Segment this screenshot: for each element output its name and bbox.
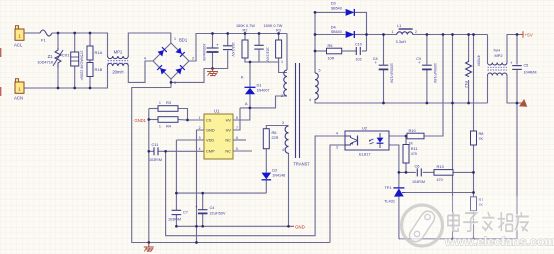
wire C7 bottom lead [175,215,177,226]
wire VDD horizontal line [176,192,266,194]
wire bridge bottom vertex down [170,79,172,88]
wire R3 left lead [149,108,158,110]
svg-text:2: 2 [192,57,194,61]
svg-text:CS: CS [206,118,212,123]
resistor R3 (snubber) 150K 0.7W [264,24,283,58]
wire Z1 bottom lead [57,68,59,88]
svg-text:20mH: 20mH [112,70,123,75]
svg-text:GND1: GND1 [134,118,146,123]
wire R6 to D2 [265,149,267,173]
TL431 shunt regulator TP1 [384,185,405,204]
wire R11 top lead [405,136,407,145]
svg-text:BD1: BD1 [179,38,188,43]
wire opto LED anode node [389,135,407,137]
wire C9 bottom lead [426,70,428,103]
wire output rail [367,34,397,36]
capacitor C3 103/1KV [254,45,269,62]
optocoupler U2 EL817 [336,126,389,157]
svg-text:4: 4 [309,98,311,102]
wire opto emitter drop [330,145,345,243]
svg-text:R2: R2 [243,28,248,33]
connector ACL [14,26,27,48]
svg-text:TL431: TL431 [384,199,395,204]
svg-text:CMP: CMP [206,149,215,154]
svg-text:275VAC/M 220nF: 275VAC/M 220nF [80,51,84,82]
svg-text:MP2: MP2 [495,53,503,58]
wire C5 top lead [516,35,518,65]
wire R3 snubber top lead [278,34,280,41]
svg-text:C4: C4 [210,206,215,210]
svg-text:F1: F1 [41,38,46,43]
resistor R3 (sense) [158,100,178,111]
wire D4 cathode side [355,34,367,36]
wire TL431 cathode node line [399,171,416,173]
resistor R5 10R [327,43,342,60]
svg-text:C11: C11 [152,142,159,147]
wire R1A top lead [89,33,91,46]
svg-text:HV: HV [226,118,232,123]
svg-text:1: 1 [174,37,176,41]
wire MP1 bottom right leg to bridge left vertex [128,61,153,82]
wire U1 pin7 to drain [233,108,240,130]
svg-text:4: 4 [199,147,201,151]
capacitor CX1 275VAC/M 220nF [62,51,84,82]
svg-text:103/1KV: 103/1KV [231,42,235,57]
wire C2 top lead [212,34,214,48]
capacitor C11 103R/M [149,142,162,162]
ground (earth symbol, primary rail) [144,243,154,252]
wire divider feed R8 [473,35,475,132]
wire VDD pin wire [176,139,204,141]
svg-text:C7: C7 [183,211,188,215]
svg-text:TRANS7: TRANS7 [293,162,310,167]
wire secondary ground drop to feedback rail [516,103,518,239]
svg-text:D4: D4 [331,25,337,30]
svg-text:D1: D1 [257,83,262,88]
wire D2 cathode to VDD line [265,180,267,193]
svg-text:22uF/50V: 22uF/50V [210,212,227,216]
diode D2 1N4148 [262,168,286,180]
wire C8 bottom lead [383,70,385,103]
capacitor C7 103R/M [168,210,188,221]
wire DC- to bulk cap bottom bus [171,51,228,83]
svg-text:C9: C9 [416,57,421,61]
svg-text:5: 5 [236,147,238,151]
svg-text:7: 7 [236,126,238,130]
svg-text:2: 2 [199,126,201,130]
svg-text:102: 102 [356,58,362,62]
wire D3 cathode to right bus [355,12,367,51]
svg-text:1: 1 [281,60,283,64]
svg-text:+: + [216,43,219,48]
wire feedback ground rail [399,238,517,240]
svg-text:103/1KV: 103/1KV [266,47,270,62]
wire R10 feed from +5V rail [424,35,443,137]
svg-text:NC: NC [225,149,231,154]
wire MP2 left bottom leg [487,76,489,104]
wire D1 anode to drain line [249,94,251,108]
svg-text:3: 3 [174,81,176,85]
svg-text:R3: R3 [276,28,281,33]
svg-text:R1B: R1B [95,67,103,72]
wire R13 to divider [453,171,474,173]
wire C6 to R13 [423,171,434,173]
svg-text:C8: C8 [373,57,378,61]
capacitor C5 104R/M [510,61,536,75]
svg-text:4: 4 [282,148,284,152]
wire MP2 right top leg to +5V [507,35,520,63]
wire C9 top lead [426,35,428,65]
wire TL431 cathode lead [398,172,400,188]
svg-text:10R: 10R [328,56,335,60]
svg-text:Z1: Z1 [48,54,54,59]
svg-text:R3: R3 [166,100,171,105]
wire MP1 top winding right leg to bridge top [128,33,171,56]
wire secondary bottom to ground bus [315,99,488,103]
wire drain node line [240,96,287,108]
wire CMP pin wire [166,150,204,152]
resistor R8 7K [471,131,484,145]
svg-text:1000uF/16V: 1000uF/16V [390,63,394,84]
svg-text:GND: GND [295,224,305,229]
svg-text:1: 1 [159,125,161,129]
svg-text:+5V: +5V [525,33,534,38]
svg-text:3: 3 [199,136,201,140]
svg-text:4: 4 [336,132,338,136]
inductor L1 3.3uH [392,23,418,44]
wire ACL to fuse [27,32,40,34]
fuse F1 [40,30,52,43]
wire primary GND line [176,225,291,227]
resistor R1B [87,63,103,77]
svg-text:R11: R11 [411,146,418,151]
resistor R7 7K [471,197,484,211]
wire secondary top lead to diode bus [314,12,316,73]
svg-text:R10: R10 [409,128,417,133]
svg-text:C5: C5 [524,64,529,68]
power port +5V [520,31,534,37]
svg-text:R13: R13 [437,164,444,169]
svg-text:103R/M: 103R/M [168,218,181,222]
svg-text:K: K [241,75,244,80]
svg-text:D3: D3 [331,1,336,6]
wire bridge right vertex to DC+ rail [189,34,287,62]
common-mode choke MP1 20mH [108,50,129,75]
svg-text:1: 1 [392,30,394,34]
svg-text:3: 3 [282,121,284,125]
svg-text:103R/M: 103R/M [149,158,162,162]
connector ACN [14,79,27,101]
wire MP2 left top leg [487,35,489,63]
resistor R1A [87,46,103,60]
diode D1 1N4007 [241,75,270,106]
power port 0V (output ground arrow) [519,99,530,110]
svg-text:400Vdc/M: 400Vdc/M [202,44,206,61]
resistor R12 4700R [464,55,481,88]
wire R1B bottom lead [89,77,91,89]
svg-text:1N4007: 1N4007 [257,89,270,93]
wire MP2 right bottom leg [507,76,520,104]
capacitor C9 1000uF/16V [416,57,437,84]
wire snubber join to primary pin [279,62,287,73]
wire C12 top lead [227,34,229,46]
transformer secondary winding [309,69,321,103]
capacitor C10 102 [355,43,362,62]
wire RC snubber line [315,50,327,52]
svg-text:4700R: 4700R [477,55,481,66]
wire D4 line left [315,34,345,36]
svg-text:470: 470 [411,152,417,156]
wire ACN to MP1 bottom rail [27,66,108,88]
svg-text:CX1: CX1 [62,53,71,58]
svg-text:8: 8 [236,116,238,120]
wire GND1 vertical to ground rail [148,109,150,243]
svg-text:C6: C6 [415,163,420,168]
wire U1 pin5 NC stub [233,150,252,152]
svg-text:10D471K: 10D471K [37,60,54,65]
wire aux top to R6 [266,126,288,129]
diode D3 SB540 [331,1,355,16]
svg-text:1000uF/16V: 1000uF/16V [433,63,437,84]
watermark: elecfans logo and text (decorative) [400,196,554,248]
wire vertical link wire [452,35,454,239]
wire DC- left return loop to primary ground rail [132,88,171,243]
wire output rail after L1 [413,34,488,36]
svg-text:C10: C10 [355,43,362,47]
wire R2 top lead [244,34,246,41]
capacitor C8 1000uF/16V [373,57,394,84]
wire C4 top lead [202,193,204,209]
svg-text:EL817: EL817 [359,152,371,157]
wire CMP to opto collector line [166,136,345,236]
wire U1 GND pin to ground rails [197,130,205,243]
wire R4 left lead [149,119,158,121]
wire U1 pin6 NC stub [233,139,246,141]
svg-text:U1: U1 [214,109,220,114]
svg-text:22R: 22R [272,136,279,140]
transformer core [295,63,297,158]
svg-text:7K: 7K [479,137,484,141]
wire snubber bottom join [245,58,279,62]
svg-text:L1: L1 [397,23,401,28]
wire DC+ rail down to transformer primary [286,34,288,71]
svg-text:R4: R4 [166,124,172,129]
svg-text:GND: GND [206,128,215,133]
svg-text:3.3uH: 3.3uH [396,39,407,44]
svg-text:2: 2 [415,30,417,34]
capacitor C2 400Vdc/M [202,43,219,61]
svg-text:U2: U2 [362,126,368,131]
wire VDD vertical [175,140,177,210]
svg-text:A: A [245,101,248,106]
wire C11 left lead [149,150,154,152]
svg-text:2: 2 [281,94,283,98]
wire CS pin wire [188,119,205,121]
wire R12 bottom lead [468,80,470,103]
svg-text:7uH: 7uH [493,48,500,53]
svg-text:R6: R6 [272,130,277,135]
wire node K to D1 [249,62,251,87]
svg-text:+: + [195,205,198,210]
wire CX1 top lead [74,33,76,52]
wire R5 to C10 [342,50,356,52]
wire C3 top lead [258,34,260,46]
svg-text:1: 1 [159,101,161,105]
resistor R2 150K 0.7W [236,24,255,58]
resistor R6 [263,129,278,149]
wire U1 pin8 to drain [233,108,250,120]
wire CX1 bottom lead [74,66,76,88]
capacitor C6 104R/M [412,163,425,184]
power ground (earth) at bulk cap [207,69,218,77]
op-amp U1 PWM controller IC [199,109,238,160]
svg-text:R5: R5 [328,43,333,48]
wire C5 bottom lead [516,70,518,103]
wire TL431 anode lead [398,197,400,239]
wire C10 to right bus [362,50,367,52]
svg-text:SB540: SB540 [331,7,342,11]
svg-text:3: 3 [336,146,338,150]
wire R8 to mid node [473,145,475,197]
resistor R11 470 [403,145,418,164]
svg-text:R1A: R1A [95,50,103,55]
svg-text:TP1: TP1 [384,185,391,190]
bridge rectifier BD1 [144,37,194,85]
wire C2 bottom lead [212,53,214,69]
svg-text:1: 1 [199,116,201,120]
varistor Z1 10D471K [37,48,63,68]
svg-text:470: 470 [437,178,443,182]
transformer TRANS7 primary winding [281,60,287,98]
resistor R10 1K [407,128,424,145]
wire TL431 ref line [402,192,474,194]
wire opto LED cathode [389,145,399,172]
diode D4 SB540 [331,25,355,38]
wire C11 right lead [159,150,166,152]
svg-text:ACL: ACL [14,43,23,48]
svg-text:VDD: VDD [206,138,214,143]
svg-text:NC: NC [225,138,231,143]
transformer auxiliary winding [282,121,289,153]
svg-text:6: 6 [236,136,238,140]
resistor R13 470 [434,164,453,182]
wire R1A-R1B link [89,60,91,63]
resistor R4 (sense) [158,117,178,129]
sheet border (left edge, dark red) [0,48,2,57]
wire D3 bus [315,11,345,13]
svg-text:HV: HV [226,128,232,133]
common-mode choke MP2 7uH [488,48,508,76]
svg-text:R12: R12 [464,81,468,88]
wire Z1 top lead [57,33,59,48]
svg-text:ACN: ACN [14,96,23,101]
wire C8 top lead [383,35,385,65]
net label GND (red, aux return) [292,224,305,229]
wire R3R4 right join [178,109,188,121]
svg-text:5: 5 [319,69,321,73]
capacitor C4 22uF/50V [195,205,226,216]
svg-text:104R/M: 104R/M [524,71,537,75]
svg-text:4: 4 [144,57,146,61]
svg-text:1N4148: 1N4148 [272,174,285,178]
wire aux winding return [288,153,290,226]
wire R12 top lead [468,35,470,61]
svg-text:D2: D2 [272,168,277,173]
capacitor C12 103/1KV [223,42,235,57]
svg-text:www.elecfans.com: www.elecfans.com [444,234,554,248]
svg-text:R8: R8 [479,131,484,136]
wire C4 bottom lead [202,214,204,227]
wire fuse to MP1, top AC rail [52,33,108,56]
wire primary ground rail [132,242,330,244]
svg-text:104R/M: 104R/M [412,180,425,184]
svg-text:MP1: MP1 [114,50,123,55]
wire R11 bottom lead [405,163,407,172]
wire R7 bottom lead [473,211,475,239]
svg-text:SB540: SB540 [331,30,342,34]
